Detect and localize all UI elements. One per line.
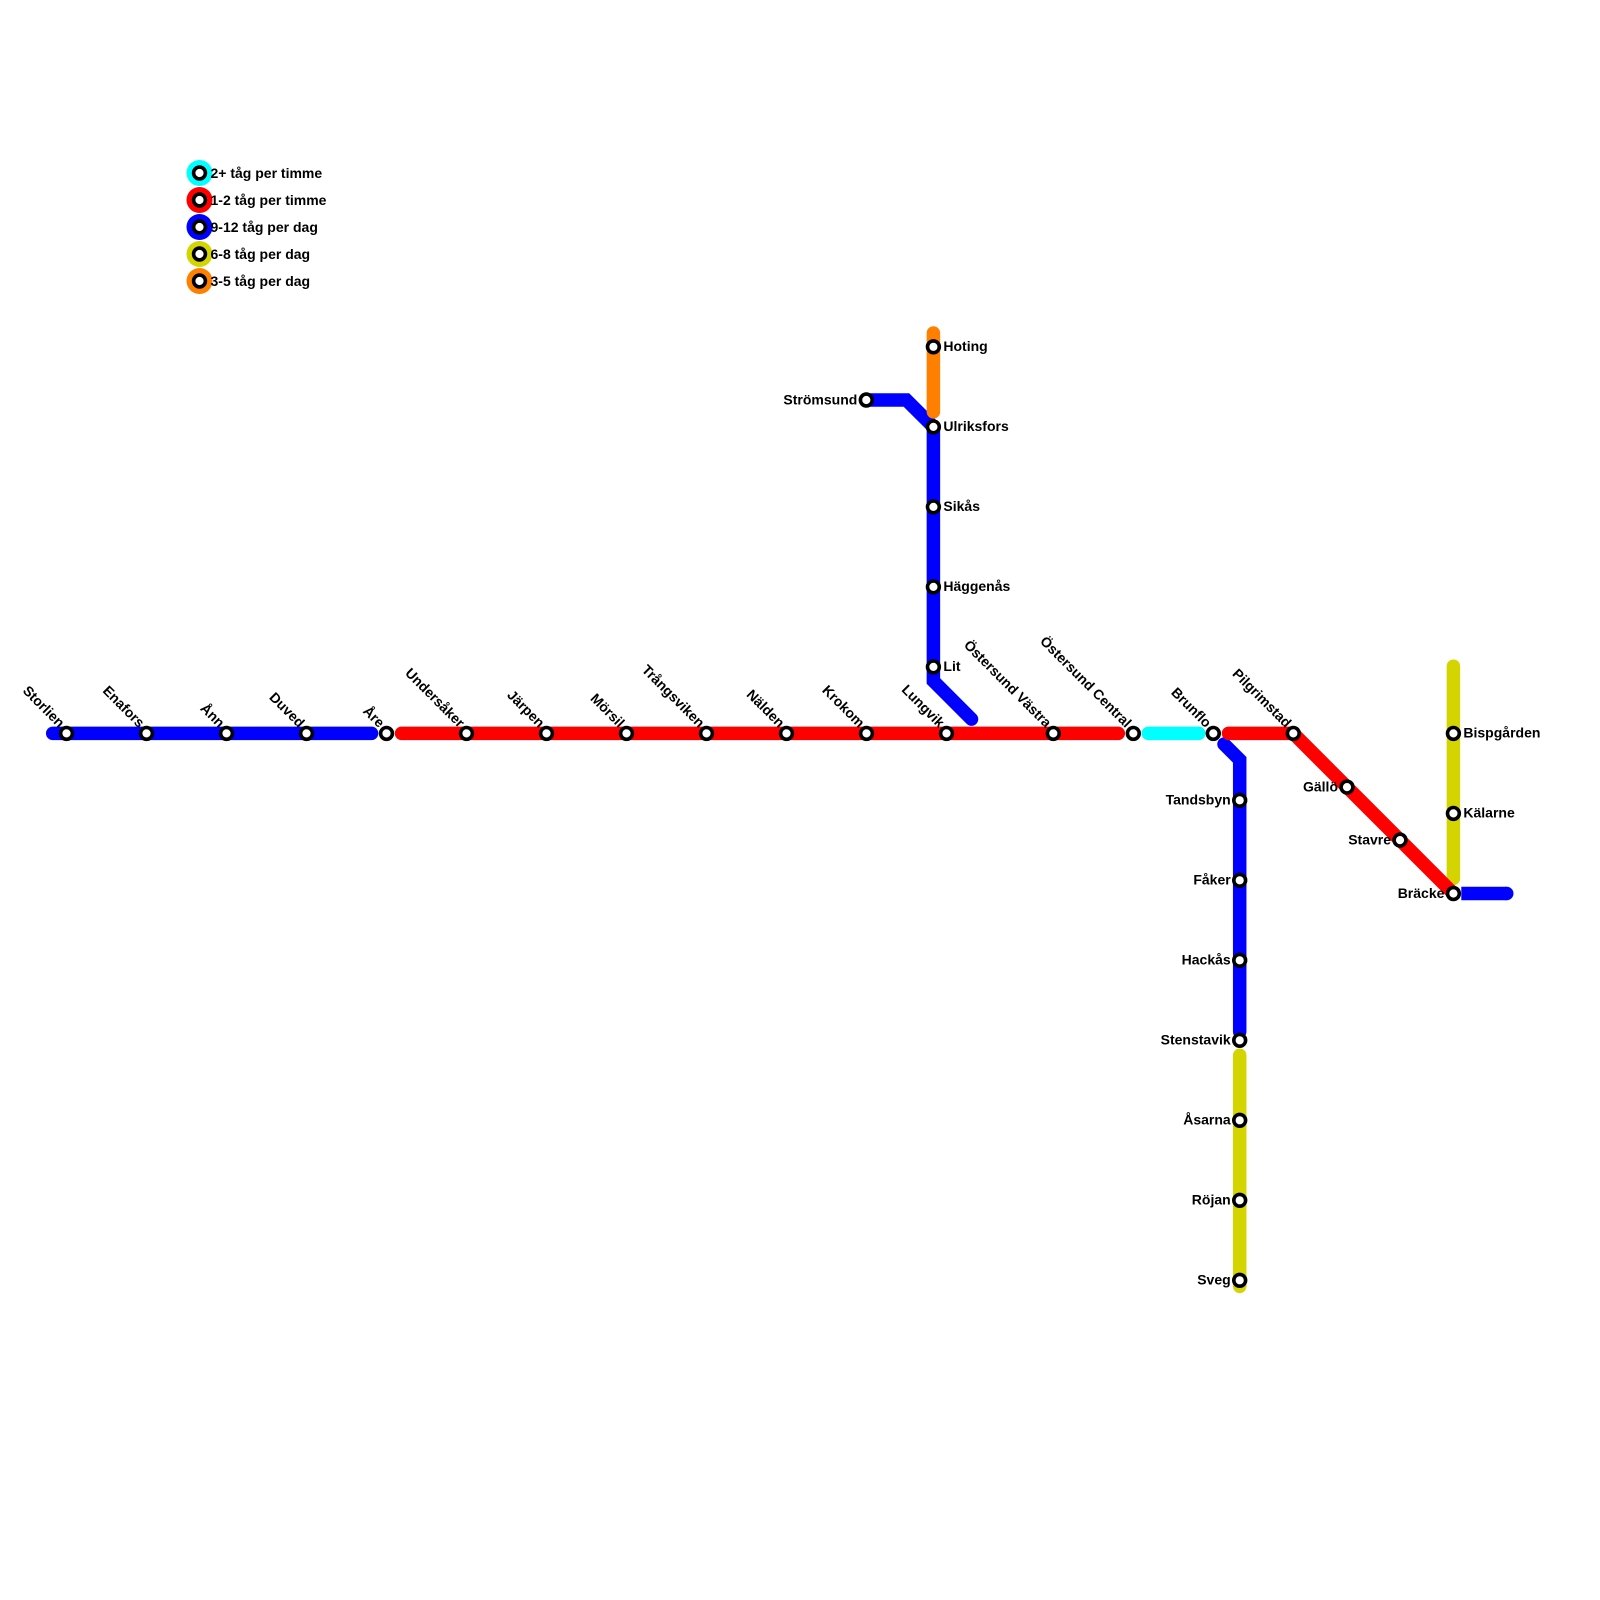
- orange line Hoting-Ulriksfors: [927, 333, 941, 412]
- blue line Bracke-east terminus: [1461, 887, 1506, 901]
- svg-text:Häggenås: Häggenås: [943, 578, 1010, 594]
- station markers: [61, 341, 1460, 1286]
- blue line Brunflo-Stenstavik: [1224, 744, 1240, 1032]
- legend row 2+ t&#229;g per timme: [187, 160, 213, 186]
- svg-text:Åsarna: Åsarna: [1183, 1112, 1231, 1128]
- cyan line OstersundCentral-Brunflo: [1148, 727, 1199, 741]
- station Tandsbyn: [1234, 794, 1246, 806]
- station Duved: [301, 728, 313, 740]
- station N&#228;lden: [781, 728, 793, 740]
- station &#197;nn: [221, 728, 233, 740]
- blue line Stromsund-Ulriksfors-Lit-junction spur: [866, 400, 971, 719]
- svg-text:Stavre: Stavre: [1348, 831, 1391, 847]
- svg-text:Sveg: Sveg: [1197, 1272, 1230, 1288]
- station M&#246;rsil: [621, 728, 633, 740]
- station labels: [20, 338, 1541, 1288]
- svg-text:Kälarne: Kälarne: [1463, 805, 1515, 821]
- legend row 3-5 t&#229;g per dag: [187, 268, 213, 294]
- station Sik&#229;s: [928, 501, 940, 513]
- station Sveg: [1234, 1274, 1246, 1286]
- blue line west terminus to Are: [53, 727, 372, 741]
- svg-text:9-12 tåg per dag: 9-12 tåg per dag: [211, 219, 318, 235]
- station Str&#246;msund: [860, 394, 872, 406]
- legend row 6-8 t&#229;g per dag: [187, 241, 213, 267]
- station Storlien: [61, 728, 73, 740]
- station &#197;sarna: [1234, 1114, 1246, 1126]
- svg-text:Sikås: Sikås: [943, 498, 980, 514]
- svg-text:Hoting: Hoting: [943, 338, 987, 354]
- station Stavre: [1394, 834, 1406, 846]
- station Lungvik: [941, 728, 953, 740]
- station Unders&#229;ker: [461, 728, 473, 740]
- svg-text:Hackås: Hackås: [1182, 952, 1231, 968]
- station Brunflo: [1207, 728, 1219, 740]
- svg-text:Strömsund: Strömsund: [783, 391, 857, 407]
- svg-text:Tandsbyn: Tandsbyn: [1166, 792, 1231, 808]
- yellow line Stenstavik-Sveg-south terminus: [1233, 1055, 1247, 1286]
- station Lit: [928, 661, 940, 673]
- station Bispg&#229;rden: [1448, 728, 1460, 740]
- red line Are-OstersundCentral: [402, 727, 1119, 741]
- station J&#228;rpen: [541, 728, 553, 740]
- svg-text:3-5 tåg per dag: 3-5 tåg per dag: [211, 273, 311, 289]
- yellow line north terminus-Bispgarden-Bracke: [1447, 666, 1461, 878]
- svg-text:Fåker: Fåker: [1193, 872, 1231, 888]
- svg-text:6-8 tåg per dag: 6-8 tåg per dag: [211, 246, 311, 262]
- svg-text:Ulriksfors: Ulriksfors: [943, 418, 1009, 434]
- station Hoting: [928, 341, 940, 353]
- svg-text:2+ tåg per timme: 2+ tåg per timme: [211, 165, 323, 181]
- station Hack&#229;s: [1234, 954, 1246, 966]
- svg-text:Stenstavik: Stenstavik: [1161, 1032, 1231, 1048]
- station G&#228;ll&#246;: [1341, 781, 1353, 793]
- station H&#228;ggen&#229;s: [928, 581, 940, 593]
- station Stenstavik: [1234, 1034, 1246, 1046]
- station F&#229;ker: [1234, 874, 1246, 886]
- red line Brunflo-Pilgrimstad-Bracke: [1229, 733, 1454, 893]
- svg-text:1-2 tåg per timme: 1-2 tåg per timme: [211, 192, 327, 208]
- station Pilgrimstad: [1287, 728, 1299, 740]
- station &#197;re: [381, 728, 393, 740]
- station Tr&#229;ngsviken: [701, 728, 713, 740]
- svg-text:Bräcke: Bräcke: [1398, 885, 1445, 901]
- station R&#246;jan: [1234, 1194, 1246, 1206]
- blue line east terminus round cap: [1500, 887, 1514, 901]
- station K&#228;larne: [1448, 808, 1460, 820]
- legend row 9-12 t&#229;g per dag: [187, 214, 213, 240]
- station Krokom: [861, 728, 873, 740]
- legend row 1-2 t&#229;g per timme: [187, 187, 213, 213]
- station Br&#228;cke: [1448, 888, 1460, 900]
- station Ulriksfors: [928, 421, 940, 433]
- svg-text:Bispgården: Bispgården: [1463, 725, 1540, 741]
- station &#214;stersund V&#228;stra: [1047, 728, 1059, 740]
- legend: [187, 160, 327, 294]
- station Enafors: [141, 728, 153, 740]
- station &#214;stersund Central: [1127, 728, 1139, 740]
- svg-text:Lit: Lit: [943, 658, 960, 674]
- svg-text:Röjan: Röjan: [1192, 1192, 1231, 1208]
- svg-text:Gällö: Gällö: [1303, 778, 1338, 794]
